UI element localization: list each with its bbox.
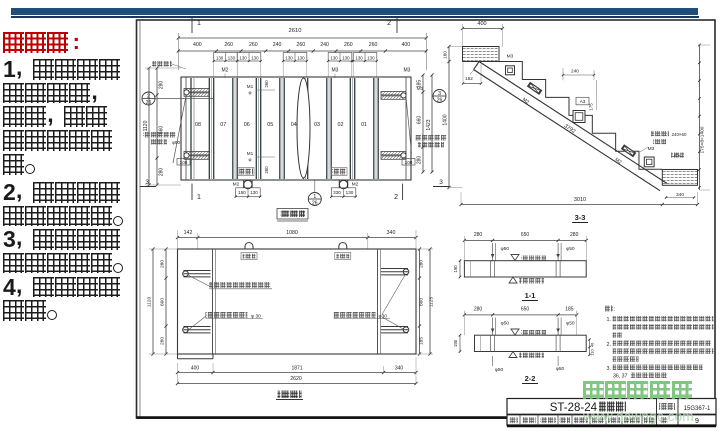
svg-text:130: 130 xyxy=(346,190,354,195)
svg-text:130: 130 xyxy=(342,55,350,60)
svg-text:260: 260 xyxy=(344,42,353,48)
svg-text:M2: M2 xyxy=(222,68,229,74)
svg-text:650: 650 xyxy=(521,232,530,238)
svg-text:130: 130 xyxy=(297,55,305,60)
svg-text:280: 280 xyxy=(417,156,423,165)
svg-text:280: 280 xyxy=(160,260,166,268)
svg-text:M3: M3 xyxy=(417,86,424,91)
svg-text:660: 660 xyxy=(417,116,423,125)
svg-text:04: 04 xyxy=(291,122,297,128)
svg-text:M3: M3 xyxy=(332,68,339,74)
svg-text:A3: A3 xyxy=(580,99,586,104)
svg-text:190: 190 xyxy=(453,265,458,273)
svg-text:100: 100 xyxy=(180,160,188,165)
svg-text:M1: M1 xyxy=(247,151,254,156)
svg-text:260: 260 xyxy=(249,42,258,48)
svg-text:1: 1 xyxy=(197,20,201,27)
svg-text:142: 142 xyxy=(184,230,193,236)
svg-text:260: 260 xyxy=(224,42,233,48)
svg-text:130: 130 xyxy=(239,55,247,60)
svg-text:400: 400 xyxy=(402,42,411,48)
svg-text:260: 260 xyxy=(264,80,269,88)
svg-text:01: 01 xyxy=(361,122,367,128)
svg-text:340: 340 xyxy=(676,192,684,198)
svg-text:1080: 1080 xyxy=(286,230,298,236)
svg-text:3.: 3. xyxy=(607,366,612,372)
svg-text:1125: 1125 xyxy=(429,297,435,308)
svg-text:650: 650 xyxy=(521,306,530,312)
svg-text:M3: M3 xyxy=(404,68,411,74)
svg-text:175×8=1400: 175×8=1400 xyxy=(700,126,706,153)
svg-text:φ50: φ50 xyxy=(566,321,575,327)
svg-text:M1: M1 xyxy=(247,84,254,89)
svg-text:160: 160 xyxy=(443,51,448,59)
svg-text:26: 26 xyxy=(312,200,318,206)
svg-text:1423: 1423 xyxy=(426,119,432,130)
svg-text:280: 280 xyxy=(418,260,424,268)
svg-text:1.: 1. xyxy=(607,317,612,323)
svg-text:36, 37: 36, 37 xyxy=(613,373,628,379)
svg-text:3: 3 xyxy=(145,179,149,186)
svg-text:660: 660 xyxy=(418,298,424,306)
svg-text:1120: 1120 xyxy=(147,297,153,308)
svg-text:240: 240 xyxy=(571,69,579,74)
svg-text:40: 40 xyxy=(590,342,595,347)
svg-text:3010: 3010 xyxy=(574,197,586,203)
svg-text:φ50: φ50 xyxy=(501,321,510,327)
svg-text:260: 260 xyxy=(297,42,306,48)
svg-text:130: 130 xyxy=(330,55,338,60)
svg-text:175: 175 xyxy=(589,103,594,111)
svg-text:02: 02 xyxy=(338,122,344,128)
svg-text:130: 130 xyxy=(367,55,375,60)
svg-text:2620: 2620 xyxy=(290,376,302,382)
svg-text:400: 400 xyxy=(477,21,486,27)
svg-text:M2: M2 xyxy=(352,182,359,188)
svg-text:3-3: 3-3 xyxy=(575,213,586,222)
svg-text:1400: 1400 xyxy=(443,114,449,125)
svg-text:340: 340 xyxy=(395,365,404,371)
svg-text:130: 130 xyxy=(285,55,293,60)
svg-text:2.: 2. xyxy=(607,342,612,348)
svg-text:3: 3 xyxy=(439,179,443,186)
svg-text:06: 06 xyxy=(244,122,250,128)
svg-text:φ50: φ50 xyxy=(556,366,565,372)
svg-text:400: 400 xyxy=(193,42,202,48)
svg-text:05: 05 xyxy=(267,122,273,128)
svg-text:240×60: 240×60 xyxy=(672,132,687,137)
svg-text:1871: 1871 xyxy=(291,365,302,371)
svg-text:152: 152 xyxy=(465,76,473,81)
svg-text:185: 185 xyxy=(418,337,424,345)
svg-text:660: 660 xyxy=(160,298,166,306)
svg-text:2: 2 xyxy=(394,194,398,201)
svg-text:130: 130 xyxy=(216,55,224,60)
svg-text:280: 280 xyxy=(474,306,483,312)
svg-text:2610: 2610 xyxy=(289,28,302,34)
svg-text:190: 190 xyxy=(453,339,458,347)
svg-text:2: 2 xyxy=(147,93,150,99)
svg-text:280: 280 xyxy=(160,337,166,345)
svg-text:φ: φ xyxy=(249,90,252,95)
svg-text:08: 08 xyxy=(195,122,201,128)
svg-text:1: 1 xyxy=(313,194,316,200)
svg-text:2: 2 xyxy=(387,20,391,27)
svg-text:280: 280 xyxy=(159,81,165,90)
svg-text:280: 280 xyxy=(570,232,579,238)
svg-text:M2: M2 xyxy=(233,182,240,188)
svg-text:2-2: 2-2 xyxy=(525,374,536,383)
svg-text:3: 3 xyxy=(438,91,441,97)
svg-text:240: 240 xyxy=(320,42,329,48)
svg-text:130: 130 xyxy=(251,55,259,60)
svg-text:130: 130 xyxy=(355,55,363,60)
svg-text:φ50: φ50 xyxy=(172,140,181,145)
svg-text:M3: M3 xyxy=(507,54,514,60)
svg-text:1-1: 1-1 xyxy=(525,291,536,300)
svg-text:26: 26 xyxy=(437,97,443,103)
svg-text:07: 07 xyxy=(220,122,226,128)
svg-text:150: 150 xyxy=(238,190,246,195)
svg-text:26: 26 xyxy=(146,100,152,106)
svg-text:260: 260 xyxy=(369,42,378,48)
svg-text:280: 280 xyxy=(474,232,483,238)
svg-text:03: 03 xyxy=(314,122,320,128)
svg-text:185: 185 xyxy=(565,306,574,312)
svg-text:φ50: φ50 xyxy=(495,367,504,373)
svg-text:240: 240 xyxy=(273,42,282,48)
svg-text:340: 340 xyxy=(387,230,396,236)
svg-text:1120: 1120 xyxy=(143,120,149,131)
svg-text:280: 280 xyxy=(159,168,165,177)
svg-text:M3: M3 xyxy=(648,146,655,152)
svg-text:φ: φ xyxy=(249,157,252,162)
svg-text:φ50: φ50 xyxy=(566,246,575,252)
svg-text:110: 110 xyxy=(590,349,595,356)
svg-text:260: 260 xyxy=(264,166,269,174)
svg-text:1: 1 xyxy=(197,194,201,201)
svg-text:100: 100 xyxy=(405,160,413,165)
svg-text:130: 130 xyxy=(250,190,258,195)
svg-text:400: 400 xyxy=(191,365,200,371)
svg-text:330: 330 xyxy=(333,190,341,195)
svg-text:φ50: φ50 xyxy=(501,246,510,252)
svg-text:9: 9 xyxy=(695,418,699,425)
svg-text:130: 130 xyxy=(228,55,236,60)
